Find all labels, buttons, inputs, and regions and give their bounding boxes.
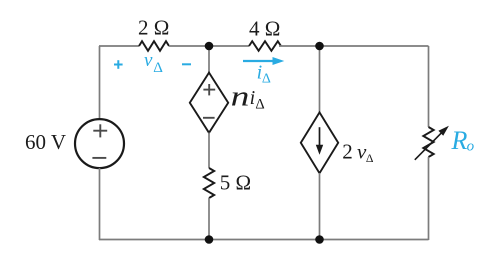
label n i-delta xyxy=(231,82,265,113)
svg-text:60 V: 60 V xyxy=(25,130,66,154)
voltage source 60V circle xyxy=(75,119,124,168)
wire left vertical upper xyxy=(99,46,101,119)
variable resistor arrow xyxy=(415,126,449,160)
wire top-right segment xyxy=(279,45,429,47)
svg-text:2: 2 xyxy=(342,140,353,164)
voltage source plus sign xyxy=(93,124,107,137)
label 2 v-delta xyxy=(342,140,374,165)
svg-text:R: R xyxy=(451,126,468,155)
svg-text:4 Ω: 4 Ω xyxy=(249,17,280,41)
svg-text:5 Ω: 5 Ω xyxy=(220,171,251,195)
dependent source plus sign xyxy=(203,84,215,95)
voltage source minus sign xyxy=(92,157,106,159)
resistor 4 ohm zigzag xyxy=(249,41,281,51)
variable resistor Ro zigzag xyxy=(423,127,433,157)
cyan label v-delta xyxy=(144,50,163,76)
svg-text:i: i xyxy=(250,87,256,109)
wire far-right vertical upper xyxy=(428,46,430,127)
current source arrow xyxy=(316,127,323,155)
cyan label i-delta xyxy=(257,62,271,87)
svg-text:Δ: Δ xyxy=(153,60,163,76)
wire middle branch between diamond and 5 ohm xyxy=(208,133,210,169)
svg-text:o: o xyxy=(467,139,475,155)
wire top-middle segment xyxy=(169,45,249,47)
svg-text:Δ: Δ xyxy=(262,72,271,87)
svg-text:Δ: Δ xyxy=(366,151,374,165)
resistor 5 ohm zigzag xyxy=(204,168,214,198)
dependent current source diamond U2 xyxy=(301,112,338,173)
wire middle branch lower xyxy=(208,198,210,240)
resistor 2 ohm zigzag xyxy=(139,41,169,51)
cyan current arrow i-delta xyxy=(243,57,284,65)
cyan plus marker v-delta xyxy=(114,60,123,69)
wire top-left segment xyxy=(99,45,139,47)
wire left vertical lower xyxy=(99,168,101,240)
wire middle branch upper xyxy=(208,46,210,73)
svg-text:n: n xyxy=(231,82,250,112)
cyan minus marker v-delta xyxy=(182,63,191,65)
svg-text:Δ: Δ xyxy=(255,97,264,113)
label Ro xyxy=(451,126,475,155)
wire right-middle branch lower xyxy=(319,173,321,240)
svg-text:v: v xyxy=(144,50,153,71)
node bottom B xyxy=(315,235,324,244)
node bottom A xyxy=(205,235,214,244)
wire far-right vertical lower xyxy=(428,157,430,240)
dependent voltage source diamond U1 xyxy=(190,73,228,133)
wire right-middle branch upper xyxy=(319,46,321,113)
node top A xyxy=(205,42,214,51)
dependent source minus sign xyxy=(203,117,215,119)
svg-text:2 Ω: 2 Ω xyxy=(138,16,169,40)
node top B xyxy=(315,42,324,51)
wire bottom xyxy=(99,239,429,241)
